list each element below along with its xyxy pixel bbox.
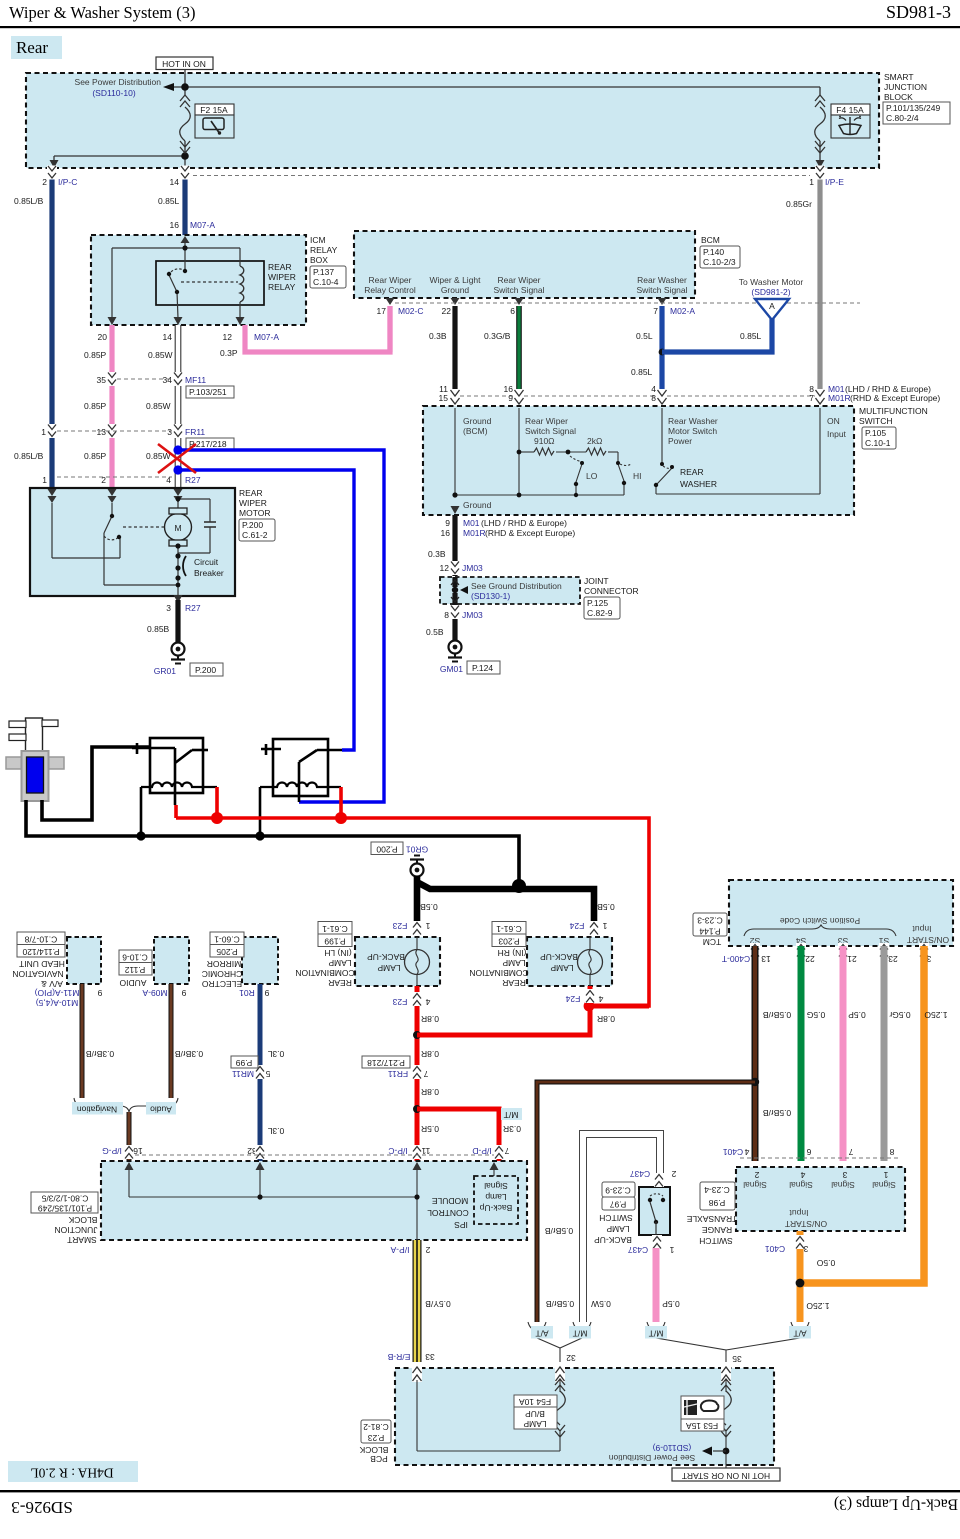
svg-text:(IN) LH: (IN) LH [324, 948, 351, 958]
svg-text:7: 7 [504, 1146, 509, 1156]
svg-text:8: 8 [889, 1147, 894, 1157]
svg-text:Rear Washer: Rear Washer [668, 416, 718, 426]
svg-text:20: 20 [98, 332, 108, 342]
svg-text:4: 4 [800, 1170, 805, 1180]
Rear label [11, 36, 62, 59]
svg-text:M01R: M01R [463, 528, 486, 538]
wire 0.3L mirror [258, 984, 263, 1161]
sketch relay2 coil to red bus [339, 787, 343, 818]
svg-text:(SD110-9): (SD110-9) [653, 1443, 692, 1453]
svg-text:Rear Wiper: Rear Wiper [525, 416, 568, 426]
svg-text:CONNECTOR: CONNECTOR [584, 586, 639, 596]
connector FR11 (inverted) [412, 1065, 422, 1079]
svg-text:HOT IN ON OR START: HOT IN ON OR START [682, 1471, 770, 1481]
bottom rule [0, 1490, 960, 1492]
svg-text:0.8R: 0.8R [421, 1087, 439, 1097]
wire 0.3B to JM03 [452, 515, 457, 576]
svg-text:12: 12 [223, 332, 233, 342]
svg-text:P.114/120: P.114/120 [22, 947, 59, 957]
svg-text:16: 16 [133, 1146, 143, 1156]
svg-text:2: 2 [671, 1169, 676, 1179]
wire 0.85P pin20 [109, 325, 114, 488]
svg-text:D4HA : R 2.0L: D4HA : R 2.0L [30, 1465, 113, 1480]
svg-text:Input: Input [789, 1208, 809, 1218]
svg-text:LAMP: LAMP [502, 958, 525, 968]
wire 1.25O ON/START [800, 946, 924, 1283]
svg-text:TRANSAXLE: TRANSAXLE [686, 1214, 737, 1224]
svg-text:P.124: P.124 [472, 663, 493, 673]
svg-text:0.3L: 0.3L [267, 1049, 284, 1059]
svg-text:9: 9 [97, 988, 102, 998]
svg-text:LAMP: LAMP [606, 1224, 629, 1234]
svg-text:M02-A: M02-A [670, 306, 695, 316]
svg-text:Position Switch Code: Position Switch Code [780, 916, 861, 926]
svg-text:9: 9 [264, 988, 269, 998]
svg-text:NAVIGATION: NAVIGATION [12, 969, 63, 979]
svg-text:1: 1 [669, 1245, 674, 1255]
svg-text:8: 8 [651, 393, 656, 403]
A/T M/T merge brackets [528, 1322, 809, 1362]
svg-text:Audio: Audio [150, 1104, 172, 1114]
wire 0.5P backup switch [653, 1248, 660, 1322]
wire 0.5P S3 [840, 946, 847, 1161]
svg-text:0.5Br/B: 0.5Br/B [763, 1010, 792, 1020]
svg-text:Switch Signal: Switch Signal [493, 285, 544, 295]
svg-text:0.3L: 0.3L [267, 1126, 284, 1136]
svg-text:LAMP: LAMP [328, 958, 351, 968]
svg-text:P.101/135/249: P.101/135/249 [38, 1203, 92, 1213]
wire 0.8R lamp LH feed [415, 986, 420, 1161]
svg-text:See Power Distribution: See Power Distribution [75, 77, 162, 87]
svg-text:0.3P: 0.3P [220, 348, 238, 358]
svg-text:Ground: Ground [463, 500, 492, 510]
svg-text:M/T: M/T [504, 1110, 519, 1120]
svg-text:BLOCK: BLOCK [68, 1215, 97, 1225]
svg-text:22: 22 [442, 306, 452, 316]
wire 0.3B ground [452, 306, 457, 402]
svg-text:0.85L/B: 0.85L/B [14, 196, 44, 206]
svg-text:C.61-1: C.61-1 [322, 924, 348, 934]
svg-text:BOX: BOX [310, 255, 328, 265]
svg-text:Input: Input [912, 924, 932, 934]
svg-text:0.3Br/B: 0.3Br/B [175, 1049, 204, 1059]
svg-text:Signal: Signal [789, 1180, 813, 1190]
svg-text:Back-Up: Back-Up [479, 1203, 512, 1213]
wire 0.3R M/T branch [417, 1109, 499, 1161]
svg-text:0.5Gr: 0.5Gr [889, 1010, 910, 1020]
svg-text:M02-C: M02-C [398, 306, 424, 316]
svg-text:0.5P: 0.5P [662, 1299, 680, 1309]
svg-text:7: 7 [653, 306, 658, 316]
merge brace + labels [74, 1098, 178, 1112]
merged brown wire to pin16 [127, 1112, 132, 1161]
svg-text:34: 34 [163, 375, 173, 385]
svg-text:P.199: P.199 [324, 936, 345, 946]
svg-text:1: 1 [602, 921, 607, 931]
svg-text:GM01: GM01 [440, 664, 463, 674]
svg-text:35: 35 [97, 375, 107, 385]
svg-text:9: 9 [508, 393, 513, 403]
svg-text:P.137: P.137 [313, 267, 334, 277]
svg-text:23: 23 [888, 954, 898, 964]
pink wire 17 M02-C [387, 306, 392, 352]
svg-text:F4 15A: F4 15A [836, 105, 864, 115]
svg-text:1: 1 [41, 427, 46, 437]
svg-text:C.81-2: C.81-2 [363, 1422, 389, 1432]
svg-text:I/P-C: I/P-C [388, 1146, 407, 1156]
svg-text:Wiper & Light: Wiper & Light [429, 275, 481, 285]
svg-text:MIRROR: MIRROR [207, 959, 241, 969]
svg-text:C.80-1/2/3/5: C.80-1/2/3/5 [41, 1193, 88, 1203]
svg-text:P.125: P.125 [587, 598, 608, 608]
svg-text:RANGE: RANGE [702, 1225, 733, 1235]
blue wire to sketch relay2 pivot [178, 470, 354, 750]
svg-text:0.5W: 0.5W [591, 1299, 611, 1309]
wire 0.3Br/B audio [169, 984, 174, 1098]
svg-text:Rear Wiper: Rear Wiper [369, 275, 412, 285]
svg-text:C.10-6: C.10-6 [122, 952, 148, 962]
svg-text:4: 4 [425, 997, 430, 1007]
svg-text:(SD130-1): (SD130-1) [471, 591, 510, 601]
back-up lamp signal sub-box [474, 1176, 518, 1224]
svg-text:(RHD & Except Europe): (RHD & Except Europe) [485, 528, 575, 538]
svg-text:SMART: SMART [67, 1235, 97, 1245]
svg-text:2: 2 [754, 1170, 759, 1180]
TCM pin chevrons [750, 943, 760, 957]
svg-text:E/R-B: E/R-B [387, 1352, 410, 1362]
sketch red bus [176, 818, 649, 1006]
svg-text:P.203: P.203 [498, 936, 519, 946]
PCB block (inverted) [359, 1367, 774, 1468]
ground GM01 [448, 641, 462, 662]
sketch relay 2 [260, 739, 342, 836]
svg-text:P.217/218: P.217/218 [367, 1058, 405, 1068]
svg-text:P.105: P.105 [865, 428, 886, 438]
svg-text:MODULE: MODULE [431, 1196, 468, 1206]
HOT IN ON OR START (inverted) [672, 1468, 780, 1481]
svg-text:17: 17 [377, 306, 387, 316]
svg-text:Breaker: Breaker [194, 568, 224, 578]
sketch wire: pump to relay1 [42, 747, 150, 820]
svg-text:I/P-G: I/P-G [102, 1146, 122, 1156]
svg-text:2kΩ: 2kΩ [587, 436, 602, 446]
svg-text:Signal: Signal [743, 1180, 767, 1190]
D4HA label (inverted) [8, 1461, 138, 1482]
svg-text:P.103/251: P.103/251 [189, 387, 227, 397]
svg-text:JOINT: JOINT [584, 576, 609, 586]
svg-text:14: 14 [170, 177, 180, 187]
svg-text:SWITCH: SWITCH [599, 1213, 633, 1223]
svg-text:7: 7 [809, 393, 814, 403]
svg-text:0.3Br/B: 0.3Br/B [86, 1049, 115, 1059]
svg-text:ON/START: ON/START [785, 1219, 827, 1229]
svg-text:0.5B: 0.5B [426, 627, 444, 637]
svg-text:ELECTRO: ELECTRO [202, 979, 243, 989]
svg-text:FR11: FR11 [388, 1069, 408, 1079]
brown branch to A/T [751, 1078, 759, 1086]
connector M02 dashes [395, 302, 860, 304]
svg-text:Back-Up Lamps (3): Back-Up Lamps (3) [834, 1495, 958, 1512]
svg-text:(RHD & Except Europe): (RHD & Except Europe) [850, 393, 940, 403]
svg-text:1: 1 [42, 475, 47, 485]
sketch wire: pump to ground bus [26, 800, 519, 886]
svg-text:C.80-2/4: C.80-2/4 [886, 113, 919, 123]
svg-text:SWITCH: SWITCH [699, 1236, 733, 1246]
svg-text:33: 33 [425, 1352, 435, 1362]
svg-text:IPS: IPS [454, 1220, 468, 1230]
svg-text:(SD110-10): (SD110-10) [92, 88, 135, 98]
svg-text:M07-A: M07-A [254, 332, 279, 342]
wire 0.85W pin14 white [175, 325, 181, 488]
svg-text:0.5L: 0.5L [636, 331, 653, 341]
svg-text:0.8R: 0.8R [597, 1014, 615, 1024]
wire 0.8R lamp RH feed [417, 986, 649, 1035]
svg-text:32: 32 [566, 1353, 576, 1363]
svg-text:SD981-3: SD981-3 [886, 2, 951, 22]
svg-text:Rear: Rear [16, 38, 48, 57]
sketch ground bus dots [136, 831, 145, 840]
svg-text:0.5Y/B: 0.5Y/B [425, 1299, 451, 1309]
svg-text:F54 10A: F54 10A [519, 1397, 551, 1407]
wire 0.85L/B I/P-C [49, 168, 54, 488]
svg-text:4: 4 [598, 994, 603, 1004]
svg-text:8: 8 [444, 610, 449, 620]
multifunction switch [423, 406, 928, 515]
svg-text:C.61-2: C.61-2 [242, 530, 268, 540]
red X correction mark [158, 444, 196, 473]
svg-text:Power: Power [668, 436, 692, 446]
svg-text:C.23-4: C.23-4 [704, 1185, 730, 1195]
svg-text:C.10-2/3: C.10-2/3 [703, 257, 736, 267]
svg-text:REAR: REAR [328, 978, 352, 988]
blue wire to sketch relay2 blade [178, 450, 384, 802]
svg-text:Signal: Signal [872, 1180, 896, 1190]
svg-text:21: 21 [847, 954, 857, 964]
svg-text:P.200: P.200 [195, 665, 216, 675]
svg-text:M09-A: M09-A [142, 988, 167, 998]
joint connector [440, 576, 639, 619]
svg-text:BACK-UP: BACK-UP [367, 952, 405, 962]
svg-text:MR11: MR11 [232, 1069, 254, 1079]
svg-text:R01: R01 [239, 988, 255, 998]
svg-text:I/P-A: I/P-A [390, 1245, 409, 1255]
svg-text:To Washer Motor: To Washer Motor [739, 277, 804, 287]
svg-text:0.5R: 0.5R [421, 1124, 439, 1134]
svg-text:FR11: FR11 [185, 427, 205, 437]
svg-text:R27: R27 [185, 475, 201, 485]
svg-text:P.97: P.97 [610, 1199, 627, 1209]
svg-text:2: 2 [425, 1245, 430, 1255]
svg-text:WASHER: WASHER [680, 479, 717, 489]
wire 0.85B to GR01 [175, 600, 180, 642]
svg-text:JM03: JM03 [462, 610, 483, 620]
svg-text:See Power Distribution: See Power Distribution [609, 1453, 696, 1463]
svg-text:CONTROL: CONTROL [427, 1208, 469, 1218]
svg-text:F24: F24 [569, 921, 584, 931]
ground GR01 (inverted) [371, 842, 428, 877]
svg-text:Signal: Signal [831, 1180, 855, 1190]
svg-text:9: 9 [445, 518, 450, 528]
svg-text:Ground: Ground [441, 285, 470, 295]
wire 0.5B ground feed [417, 876, 594, 922]
svg-text:1.25O: 1.25O [806, 1301, 830, 1311]
svg-text:0.85W: 0.85W [146, 401, 171, 411]
svg-text:HOT IN ON: HOT IN ON [162, 59, 206, 69]
svg-text:BACK-UP: BACK-UP [540, 952, 578, 962]
svg-text:16: 16 [441, 528, 451, 538]
svg-text:M11-A(PIO): M11-A(PIO) [34, 988, 79, 998]
svg-text:JUNCTION: JUNCTION [55, 1225, 98, 1235]
svg-text:F24: F24 [565, 994, 580, 1004]
svg-text:BLOCK: BLOCK [359, 1445, 388, 1455]
svg-text:COMBINATION: COMBINATION [469, 968, 528, 978]
svg-text:Wiper & Washer System (3): Wiper & Washer System (3) [9, 3, 196, 22]
svg-text:LAMP: LAMP [377, 963, 400, 973]
svg-text:1.25O: 1.25O [924, 1010, 948, 1020]
sketch relay1 coil to red bus [215, 787, 219, 818]
TCM box (inverted) [693, 880, 953, 947]
svg-text:0.8R: 0.8R [421, 1049, 439, 1059]
svg-text:0.85P: 0.85P [84, 401, 107, 411]
svg-text:0.3G/B: 0.3G/B [484, 331, 511, 341]
svg-text:A/T: A/T [535, 1328, 548, 1338]
svg-text:11: 11 [421, 1146, 430, 1156]
svg-text:BACK-UP: BACK-UP [594, 1235, 632, 1245]
svg-text:See Ground Distribution: See Ground Distribution [471, 581, 562, 591]
svg-text:P.101/135/249: P.101/135/249 [886, 103, 940, 113]
svg-text:WIPER: WIPER [239, 498, 267, 508]
connector dash rows [57, 176, 810, 478]
svg-text:Motor Switch: Motor Switch [668, 426, 717, 436]
smart junction block (top) [26, 72, 950, 168]
svg-text:Lamp: Lamp [485, 1192, 507, 1202]
svg-text:0.3B: 0.3B [428, 549, 446, 559]
svg-text:M/T: M/T [573, 1328, 588, 1338]
svg-text:F23: F23 [392, 921, 407, 931]
svg-text:C.23-9: C.23-9 [605, 1185, 631, 1195]
svg-text:B/UP: B/UP [525, 1409, 545, 1419]
rear combination lamp RH [469, 922, 612, 988]
rear wiper relay [108, 236, 296, 325]
svg-text:COMBINATION: COMBINATION [295, 968, 354, 978]
svg-text:BCM: BCM [701, 235, 720, 245]
svg-text:F23: F23 [392, 997, 407, 1007]
rear combination lamp LH [295, 922, 440, 988]
svg-text:SWITCH: SWITCH [859, 416, 893, 426]
svg-text:F53 15A: F53 15A [686, 1421, 718, 1431]
svg-text:9: 9 [181, 988, 186, 998]
svg-text:3: 3 [166, 603, 171, 613]
back-up lamp switch (inverted) [583, 1134, 676, 1322]
svg-text:6: 6 [806, 1147, 811, 1157]
svg-text:0.5B: 0.5B [597, 902, 615, 912]
svg-text:5: 5 [265, 1069, 270, 1079]
svg-text:13: 13 [761, 954, 771, 964]
svg-text:M01: M01 [463, 518, 480, 528]
svg-text:TCM: TCM [703, 937, 721, 947]
svg-text:M: M [174, 523, 181, 533]
svg-text:ON: ON [827, 416, 840, 426]
head unit / audio / mirror connectors [12, 932, 102, 1008]
svg-text:REAR: REAR [268, 262, 292, 272]
svg-text:M07-A: M07-A [190, 220, 215, 230]
svg-text:3: 3 [803, 1244, 808, 1254]
svg-text:(BCM): (BCM) [463, 426, 488, 436]
svg-text:Relay Control: Relay Control [364, 285, 416, 295]
wire 0.5G S4 [798, 946, 805, 1161]
svg-text:0.85W: 0.85W [148, 350, 173, 360]
svg-text:13: 13 [97, 427, 107, 437]
svg-text:910Ω: 910Ω [534, 436, 555, 446]
svg-text:LAMP: LAMP [523, 1419, 546, 1429]
svg-text:C400-T: C400-T [722, 954, 750, 964]
svg-text:Navigation: Navigation [77, 1104, 117, 1114]
HOT IN ON label [156, 57, 213, 70]
svg-text:C401: C401 [723, 1147, 744, 1157]
svg-text:P.200: P.200 [242, 520, 263, 530]
svg-text:Switch Signal: Switch Signal [636, 285, 687, 295]
svg-text:Rear Washer: Rear Washer [637, 275, 687, 285]
wire 0.3G/B [516, 306, 522, 402]
svg-text:C.23-3: C.23-3 [697, 915, 723, 925]
svg-text:C437: C437 [628, 1245, 649, 1255]
svg-text:Rear Wiper: Rear Wiper [498, 275, 541, 285]
svg-text:RELAY: RELAY [310, 245, 338, 255]
wire 0.5Br/B S2 [752, 946, 759, 1161]
svg-text:R27: R27 [185, 603, 201, 613]
svg-text:C401: C401 [765, 1244, 786, 1254]
svg-text:0.85W: 0.85W [146, 451, 171, 461]
svg-text:JUNCTION: JUNCTION [884, 82, 927, 92]
svg-text:SD926-3: SD926-3 [11, 1498, 72, 1517]
svg-text:REAR: REAR [680, 467, 704, 477]
svg-text:(LHD / RHD & Europe): (LHD / RHD & Europe) [481, 518, 567, 528]
svg-text:I/P-C: I/P-C [58, 177, 77, 187]
wire 0.5L / 0.85L washer [659, 306, 664, 402]
svg-text:0.5G: 0.5G [807, 1010, 825, 1020]
svg-text:0.85L/B: 0.85L/B [14, 451, 44, 461]
svg-text:0.85P: 0.85P [84, 350, 107, 360]
svg-text:P.99: P.99 [236, 1058, 253, 1068]
svg-text:12: 12 [440, 563, 450, 573]
svg-text:15: 15 [439, 393, 449, 403]
range switch orange pin 3 C401 [797, 1231, 804, 1322]
svg-text:0.85L: 0.85L [631, 367, 653, 377]
wire 0.5Y/B I/P-A [413, 1240, 422, 1362]
svg-text:I/P-E: I/P-E [825, 177, 844, 187]
svg-text:22: 22 [805, 954, 815, 964]
svg-text:M01R: M01R [828, 393, 851, 403]
svg-text:0.5Br/B: 0.5Br/B [546, 1299, 575, 1309]
sketch relay 1 [132, 738, 217, 836]
sketch: washer pump component [6, 718, 64, 801]
svg-text:4: 4 [744, 1147, 749, 1157]
svg-text:0.3R: 0.3R [503, 1124, 521, 1134]
svg-text:I/P-D: I/P-D [472, 1146, 491, 1156]
wire 0.85L pin14 to ICM [182, 168, 187, 235]
svg-text:MF11: MF11 [185, 375, 206, 385]
svg-text:P.98: P.98 [709, 1198, 726, 1208]
wire 0.5B to GM01 [452, 604, 457, 640]
svg-text:C.10-7/8: C.10-7/8 [24, 934, 57, 944]
svg-text:P.205: P.205 [216, 947, 237, 957]
svg-text:C437: C437 [630, 1169, 651, 1179]
svg-text:RELAY: RELAY [268, 282, 296, 292]
svg-text:A/T: A/T [793, 1328, 806, 1338]
svg-text:Switch Signal: Switch Signal [525, 426, 576, 436]
smart junction block (bottom, inverted) [31, 1161, 527, 1245]
header rule [0, 26, 960, 28]
